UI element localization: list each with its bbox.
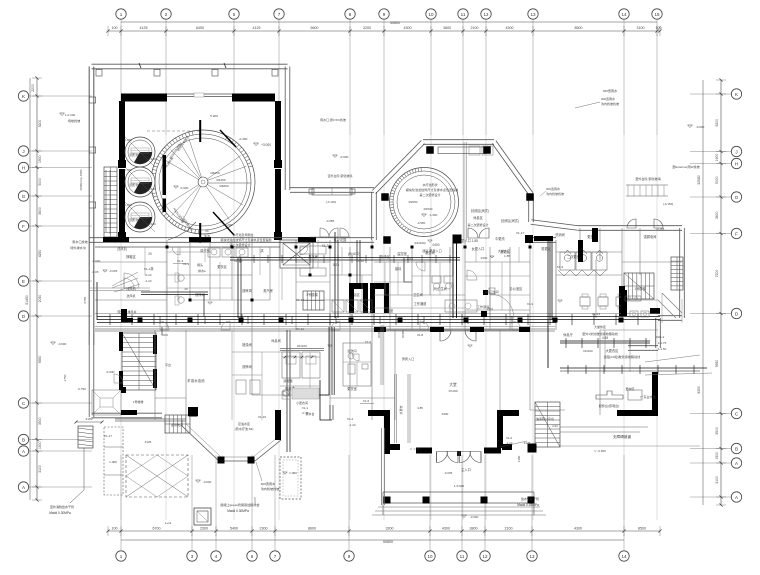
svg-text:11: 11: [460, 554, 465, 559]
svg-text:X1-1: X1-1: [302, 406, 309, 410]
sofa right wing: [625, 296, 641, 301]
veranda west wall: [381, 428, 383, 505]
svg-text:2150: 2150: [86, 417, 93, 421]
svg-text:2300: 2300: [200, 527, 208, 531]
pipe right long row: [560, 367, 707, 369]
svg-text:6600: 6600: [311, 26, 319, 30]
svg-text:1.000: 1.000: [109, 460, 117, 464]
hall north doors: [440, 330, 451, 341]
svg-text:4125: 4125: [140, 26, 148, 30]
top dimension chain: [108, 30, 660, 32]
svg-text:X1-1: X1-1: [144, 267, 151, 271]
svg-text:圆形池: 圆形池: [129, 182, 138, 187]
bay black columns: [189, 408, 198, 417]
north band extra partitions: [144, 247, 146, 275]
black bar below stairwell: [121, 410, 137, 415]
svg-text:B: B: [735, 446, 738, 451]
svg-text:中更衣: 中更衣: [495, 236, 505, 241]
office door arc: [490, 294, 514, 318]
svg-text:圆形池: 圆形池: [129, 217, 138, 222]
svg-text:3600: 3600: [715, 211, 719, 219]
svg-text:小更衣间: 小更衣间: [296, 400, 308, 405]
svg-text:300宽雨水: 300宽雨水: [601, 96, 615, 101]
svg-text:5200: 5200: [38, 120, 42, 128]
svg-text:10: 10: [428, 12, 434, 17]
svg-text:3800: 3800: [443, 26, 451, 30]
svg-text:监控室: 监控室: [397, 251, 407, 256]
svg-text:Madd 0.45MPa: Madd 0.45MPa: [517, 503, 539, 507]
stairwell B: [122, 333, 156, 390]
svg-text:-0.600: -0.600: [180, 186, 189, 190]
svg-text:更衣区: 更衣区: [217, 264, 227, 269]
wc room fixtures: [432, 276, 441, 283]
barber stations: [178, 275, 184, 281]
svg-text:3100: 3100: [637, 26, 645, 30]
svg-text:强弱电间: 强弱电间: [644, 234, 657, 239]
svg-text:蹲便器: 蹲便器: [283, 378, 292, 383]
svg-text:沟内找坡找坡: 沟内找坡找坡: [546, 191, 564, 196]
svg-text:X1-13: X1-13: [296, 298, 304, 302]
tables and chairs: [580, 297, 590, 306]
svg-text:1380: 1380: [517, 455, 521, 462]
door arcs middle band: [172, 247, 180, 255]
bath tubs right: [445, 300, 477, 312]
svg-text:-0.600: -0.600: [340, 155, 349, 159]
svg-text:送风机: 送风机: [117, 246, 127, 251]
skylight with cross: [280, 240, 313, 268]
rest hall right: [529, 330, 531, 410]
svg-text:+3.000: +3.000: [261, 143, 271, 147]
elevator shafts: [349, 283, 368, 313]
wall with DN100: [280, 348, 324, 350]
small stair by elevator: [303, 291, 324, 310]
svg-text:1750: 1750: [63, 374, 67, 381]
svg-text:4.85: 4.85: [417, 406, 423, 410]
svg-text:(-0.100): (-0.100): [326, 200, 337, 204]
svg-text:更衣室: 更衣室: [347, 386, 357, 391]
svg-text:大堂入口: 大堂入口: [498, 248, 510, 253]
lower mid partitions: [251, 330, 253, 395]
pipe elbows center: [237, 258, 239, 318]
svg-text:女更入口: 女更入口: [472, 246, 485, 251]
svg-text:通道 男宾入口: 通道 男宾入口: [422, 248, 441, 253]
veranda columns: [384, 497, 391, 504]
svg-text:X1-3: X1-3: [183, 262, 190, 266]
svg-text:Madd 0.30MPa: Madd 0.30MPa: [49, 511, 71, 515]
svg-text:(C)卫生间: (C)卫生间: [485, 289, 498, 294]
svg-text:按摩间: 按摩间: [242, 364, 252, 369]
main corridor wall upper: [95, 246, 280, 248]
svg-text:3200: 3200: [363, 26, 371, 30]
svg-text:第二次装修设计: 第二次装修设计: [419, 192, 440, 197]
svg-text:E: E: [22, 279, 25, 284]
svg-text:±0.000: ±0.000: [448, 389, 457, 393]
shower stalls: [332, 300, 344, 312]
svg-text:J: J: [735, 149, 737, 154]
svg-text:-0.05: -0.05: [92, 270, 99, 274]
svg-text:9350: 9350: [38, 356, 42, 364]
svg-text:雨水口,按0.5%找坡: 雨水口,按0.5%找坡: [320, 117, 346, 122]
svg-text:5400: 5400: [230, 527, 238, 531]
svg-text:0.750: 0.750: [124, 203, 132, 207]
svg-text:给水管接干管: 给水管接干管: [521, 496, 539, 501]
pool radius arrow: [208, 182, 251, 184]
svg-text:4300: 4300: [574, 527, 582, 531]
pool bold marks: [199, 120, 201, 142]
hall south wall: [384, 444, 400, 450]
svg-text:300宽雨水: 300宽雨水: [546, 186, 560, 191]
svg-text:主入口: 主入口: [461, 467, 471, 472]
svg-text:1-0.100: 1-0.100: [65, 113, 76, 117]
svg-text:A: A: [22, 485, 25, 490]
svg-text:32580: 32580: [697, 175, 701, 185]
svg-text:8600: 8600: [308, 527, 316, 531]
svg-text:6450: 6450: [196, 26, 204, 30]
svg-text:5000: 5000: [38, 178, 42, 186]
svg-text:J: J: [22, 149, 24, 154]
svg-text:3500: 3500: [38, 417, 42, 425]
pool hall inner wall top: [121, 94, 167, 102]
hall west corridor: [394, 374, 396, 443]
bath fixtures row: [208, 248, 220, 257]
svg-text:R4800: R4800: [219, 184, 228, 188]
svg-text:-0.40: -0.40: [302, 411, 309, 415]
svg-text:2.440: 2.440: [148, 187, 156, 191]
lower-left extra rooms: [231, 330, 233, 420]
pipe trunk vertical right: [547, 240, 549, 320]
svg-text:(-0.150): (-0.150): [663, 202, 674, 206]
swimming pool circle: [151, 130, 255, 234]
hot tub T2: [125, 167, 155, 197]
WC room fixtures center: [483, 290, 488, 295]
svg-text:100: 100: [656, 26, 662, 30]
ramp leader quad: [645, 355, 700, 362]
svg-text:DN100: DN100: [297, 344, 307, 348]
svg-text:1-0.900: 1-0.900: [454, 484, 465, 488]
octagon columns: [426, 146, 434, 154]
svg-text:-1.10: -1.10: [506, 441, 513, 445]
octagon bottom columns: [453, 235, 462, 244]
svg-text:-0.950: -0.950: [417, 221, 426, 225]
svg-text:H: H: [22, 165, 25, 170]
svg-text:堵头: 堵头: [197, 262, 203, 267]
svg-text:(DN100): (DN100): [348, 252, 360, 256]
bridge to garden: [626, 184, 668, 186]
svg-text:0.28: 0.28: [333, 263, 339, 267]
svg-text:X1-5: X1-5: [363, 399, 370, 403]
svg-text:20: 20: [148, 252, 152, 256]
top grid bubbles: [116, 9, 126, 19]
svg-text:1-1.50: 1-1.50: [658, 347, 667, 351]
svg-text:办公室区: 办公室区: [510, 286, 524, 291]
svg-text:-0.600: -0.600: [58, 342, 67, 346]
svg-text:-0.10: -0.10: [145, 273, 152, 277]
pipe hatch marks corridor: [159, 316, 161, 324]
octagon lockers: [469, 146, 480, 155]
veranda deck lines: [383, 491, 534, 493]
corridor jamb squares: [138, 318, 143, 323]
black corner fan room: [121, 309, 127, 320]
pipe drops small: [162, 327, 168, 335]
stairwell door arc: [114, 374, 123, 383]
svg-text:矿泉水泡池: 矿泉水泡池: [188, 378, 206, 383]
right wing stair: [624, 273, 654, 299]
toilet stalls: [560, 252, 575, 270]
tiny elevation markers: [208, 302, 213, 304]
svg-text:15: 15: [654, 12, 660, 17]
svg-text:X1-9: X1-9: [557, 265, 564, 269]
svg-text:场地找坡: 场地找坡: [68, 118, 80, 123]
svg-text:油漆疏以平台: 油漆疏以平台: [536, 416, 554, 421]
svg-text:3100: 3100: [38, 465, 42, 473]
service counter: [596, 391, 623, 399]
svg-text:2100: 2100: [471, 26, 479, 30]
bottom dimension chain: [108, 530, 660, 532]
svg-text:H: H: [735, 161, 738, 166]
dim ticks row: [282, 356, 320, 358]
svg-text:-0.085: -0.085: [326, 219, 335, 223]
svg-text:洗消间: 洗消间: [555, 232, 565, 237]
svg-text:9350: 9350: [715, 360, 719, 368]
svg-text:休息间: 休息间: [271, 338, 281, 343]
outdoor big dashed terrace with X: [126, 455, 188, 497]
main corridor wall lower / trunk wall: [95, 330, 555, 332]
svg-text:06: 06: [205, 229, 209, 233]
svg-text:1500: 1500: [38, 441, 42, 449]
pool hall inner wall left: [119, 101, 125, 163]
svg-text:住户花园: 住户花园: [334, 237, 347, 242]
svg-text:-1.300: -1.300: [429, 213, 438, 217]
spa furniture: [282, 352, 300, 378]
svg-text:加强(±0和)散管接地箱动线: 加强(±0和)散管接地箱动线: [604, 354, 640, 359]
svg-text:大更衣区: 大更衣区: [606, 348, 620, 353]
svg-text:1.85: 1.85: [504, 254, 510, 258]
svg-text:1500: 1500: [715, 452, 719, 460]
small door arcs center: [467, 270, 477, 280]
entrance door posts: [436, 452, 438, 463]
svg-text:2000(X2)+1580: 2000(X2)+1580: [79, 169, 83, 190]
svg-text:300宽雨水: 300宽雨水: [603, 88, 618, 93]
svg-text:1-1.75: 1-1.75: [658, 341, 667, 345]
svg-text:封闭区(间式): 封闭区(间式): [501, 218, 519, 223]
pool hall exterior wall: [92, 68, 288, 70]
svg-text:雨水口找坡: 雨水口找坡: [72, 239, 87, 244]
pool hall inner wall right: [275, 101, 281, 163]
pipe pair left rooms: [141, 291, 208, 293]
sauna benches: [300, 246, 326, 254]
svg-text:9350: 9350: [697, 386, 701, 394]
exterior stair right: [671, 257, 683, 290]
lower right partitions: [600, 329, 658, 331]
svg-text:3125: 3125: [145, 440, 152, 444]
svg-text:2.440: 2.440: [148, 222, 156, 226]
svg-text:X1-17: X1-17: [516, 231, 524, 235]
svg-text:20: 20: [184, 287, 188, 291]
svg-text:-0.035: -0.035: [444, 471, 453, 475]
svg-text:备用电房: 备用电房: [171, 422, 183, 427]
svg-text:换鞋区: 换鞋区: [126, 254, 136, 259]
svg-text:5200: 5200: [715, 119, 719, 127]
fan symbol room: [124, 273, 139, 288]
svg-text:盥洗间: 盥洗间: [347, 348, 356, 353]
hall SE black column: [528, 444, 537, 453]
svg-text:-0.600: -0.600: [203, 480, 212, 484]
svg-text:浴室: 浴室: [387, 308, 393, 313]
small locker room left: [280, 385, 319, 387]
canted bay multifunction hall: [182, 420, 281, 461]
svg-text:600宽雨水: 600宽雨水: [261, 481, 276, 486]
left wing bottom dim: [76, 421, 102, 423]
main band north wall: [89, 241, 374, 243]
svg-text:0400: 0400: [442, 412, 449, 416]
svg-text:A: A: [735, 495, 738, 500]
terrace door arcs: [320, 228, 329, 237]
svg-text:-0.030: -0.030: [106, 370, 115, 374]
right grid bubbles: [731, 89, 741, 99]
svg-text:-1.10: -1.10: [145, 279, 152, 283]
svg-text:3200: 3200: [386, 527, 394, 531]
svg-text:R1500: R1500: [424, 207, 433, 211]
jamb marks middle: [166, 246, 169, 249]
pool radial lines: [181, 186, 200, 222]
svg-text:8500: 8500: [575, 26, 583, 30]
svg-text:排风井: 排风井: [127, 309, 136, 314]
svg-text:3100: 3100: [715, 476, 719, 484]
svg-text:圆形池: 圆形池: [129, 152, 138, 157]
svg-text:0.750: 0.750: [124, 138, 132, 142]
pipe branch upper corridor: [230, 257, 460, 259]
svg-text:泡汤区: 泡汤区: [380, 254, 390, 259]
svg-text:51450: 51450: [25, 295, 29, 305]
terrace bench: [312, 188, 352, 195]
svg-text:平台: 平台: [165, 362, 171, 367]
octagon pool circle: [390, 168, 459, 237]
svg-text:1+11: 1+11: [165, 521, 172, 525]
svg-text:X1-16: X1-16: [234, 259, 243, 263]
svg-text:X1-2: X1-2: [347, 417, 354, 421]
left dimension chain: [36, 78, 38, 500]
outdoor dashed pad right: [280, 457, 301, 499]
svg-text:室外1米处散管接地箱动线: 室外1米处散管接地箱动线: [582, 331, 618, 336]
bottom grid bubbles: [116, 551, 126, 561]
svg-text:50800: 50800: [383, 540, 393, 544]
svg-text:(原水疗池:82): (原水疗池:82): [235, 426, 254, 431]
hot tub T3: [125, 202, 155, 232]
svg-text:接续上guess管接驳加接场合: 接续上guess管接驳加接场合: [220, 502, 259, 507]
weir walls: [163, 155, 167, 195]
svg-text:大堂休区: 大堂休区: [594, 324, 606, 329]
right dimension chain: [720, 80, 722, 505]
svg-text:4300: 4300: [506, 26, 514, 30]
svg-text:-0.200: -0.200: [224, 223, 233, 227]
svg-text:服务台(原吧台): 服务台(原吧台): [599, 403, 620, 408]
pipe drop right wing: [547, 320, 549, 368]
stair A arrow: [109, 170, 111, 234]
svg-text:1/12: 1/12: [552, 424, 558, 428]
svg-text:3800: 3800: [470, 527, 478, 531]
trunk riser ticks: [109, 314, 111, 325]
leader lines bottom: [70, 448, 84, 503]
corridor walls DN65: [380, 325, 382, 385]
svg-text:-0.600: -0.600: [92, 259, 101, 263]
svg-text:▽ -0.600: ▽ -0.600: [594, 449, 606, 453]
svg-text:休息区: 休息区: [473, 215, 483, 220]
right wing exterior wall: [578, 229, 682, 231]
svg-text:10: 10: [427, 554, 433, 559]
svg-text:封闭区(间式): 封闭区(间式): [471, 208, 489, 213]
svg-text:模块化池龙纹饰尺寸及排水点位置提前: 模块化池龙纹饰尺寸及排水点位置提前: [406, 187, 459, 192]
trunk black jamb extra: [481, 311, 487, 317]
left lower exterior wall: [88, 67, 90, 418]
hot tub T1: [125, 137, 155, 167]
svg-text:4300: 4300: [404, 26, 412, 30]
svg-text:DN100: DN100: [583, 349, 593, 353]
north wall black segments: [103, 237, 129, 242]
svg-text:室外台阶,钢化玻璃: 室外台阶,钢化玻璃: [328, 173, 353, 178]
pipe bundle drop center-left: [328, 327, 330, 395]
left grid bubbles: [18, 91, 28, 101]
octagon exterior wall: [376, 144, 425, 194]
pipe right band rows: [560, 340, 650, 342]
small well square: [194, 508, 211, 525]
corridor walls along trunk: [95, 313, 660, 315]
vent ticks on outer wall: [139, 63, 141, 68]
svg-text:14: 14: [621, 12, 627, 17]
partition rooms upper band: [166, 240, 168, 330]
svg-text:0750: 0750: [83, 296, 87, 303]
svg-text:X1-2: X1-2: [506, 436, 513, 440]
canopy box lower-left: [92, 390, 121, 415]
svg-text:排水≤: 排水≤: [198, 268, 206, 273]
svg-text:水疗池及司侧拉: 水疗池及司侧拉: [232, 232, 253, 237]
svg-text:R6450: R6450: [210, 171, 219, 175]
right wing lower walls black: [621, 290, 627, 316]
right wing canopy diagonals: [662, 293, 682, 313]
svg-text:12: 12: [483, 12, 489, 17]
pool hall columns: [118, 160, 126, 168]
svg-text:蒸汽房: 蒸汽房: [263, 288, 273, 293]
bay black bar east: [275, 410, 281, 440]
svg-text:卫生间: 卫生间: [413, 292, 423, 297]
svg-text:室External,雨W找坡: 室External,雨W找坡: [672, 164, 700, 169]
svg-text:休息厅: 休息厅: [563, 332, 573, 337]
svg-text:无障碍坡道: 无障碍坡道: [613, 434, 631, 439]
wall left-mid: [90, 287, 150, 289]
svg-text:送风机: 送风机: [126, 293, 135, 298]
washroom room: [343, 343, 371, 386]
column grid lines: [120, 19, 122, 135]
svg-text:0.750: 0.750: [78, 387, 86, 391]
svg-text:F: F: [735, 231, 738, 236]
hall east wall: [497, 410, 519, 416]
svg-text:3600: 3600: [38, 207, 42, 215]
svg-text:8500: 8500: [638, 527, 646, 531]
svg-text:X1-16: X1-16: [356, 259, 364, 263]
svg-text:2.440: 2.440: [148, 157, 156, 161]
partition rooms right-mid band: [389, 247, 391, 330]
svg-text:搓澡间: 搓澡间: [242, 342, 252, 347]
svg-text:场外排水沟: 场外排水沟: [70, 245, 85, 250]
hatched utility box left: [78, 426, 93, 448]
garden door arcs top right: [627, 219, 636, 228]
svg-text:-0.450: -0.450: [239, 137, 248, 141]
svg-text:A: A: [735, 461, 738, 466]
svg-text:2100: 2100: [505, 527, 513, 531]
outdoor pool deck rect: [104, 427, 123, 495]
lower-left room walls: [115, 420, 186, 422]
svg-text:100: 100: [112, 26, 118, 30]
upper corridor pipe hashes: [239, 255, 241, 263]
